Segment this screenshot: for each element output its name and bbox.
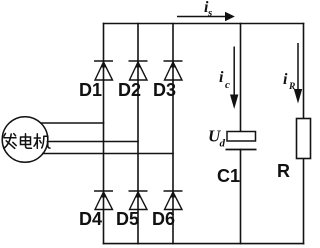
svg-text:R: R bbox=[277, 161, 290, 181]
arrow i_s on top bus bbox=[177, 12, 235, 21]
svg-text:D5: D5 bbox=[116, 209, 139, 229]
diode D6 bbox=[164, 191, 183, 210]
svg-text:D3: D3 bbox=[153, 80, 176, 100]
diode D2 bbox=[129, 61, 148, 80]
wire capacitor branch upper bbox=[240, 24, 242, 132]
wire column phase C (D3/D6 leg) bbox=[172, 24, 174, 244]
wire capacitor branch lower bbox=[240, 150, 242, 244]
svg-text:D2: D2 bbox=[118, 80, 141, 100]
generator circle 发电机 bbox=[2, 117, 48, 163]
capacitor C1 bottom plate bbox=[226, 149, 257, 151]
svg-text:i: i bbox=[219, 69, 224, 86]
svg-text:d: d bbox=[220, 138, 226, 150]
generator label 发电机 (drawn strokes) bbox=[4, 133, 50, 148]
wire generator phase line 2 bbox=[48, 141, 139, 143]
svg-text:s: s bbox=[207, 7, 212, 19]
capacitor C1 top plate bbox=[227, 132, 256, 142]
wire column phase A (D1/D4 leg) bbox=[103, 24, 105, 244]
diode D5 bbox=[129, 191, 148, 210]
char 机 bbox=[34, 134, 50, 149]
wire resistor branch upper bbox=[303, 24, 305, 119]
wire column phase B (D2/D5 leg) bbox=[137, 24, 139, 244]
svg-text:D1: D1 bbox=[79, 80, 102, 100]
diode D4 bbox=[94, 191, 113, 210]
diode D1 bbox=[94, 61, 113, 80]
svg-text:R: R bbox=[288, 82, 295, 92]
resistor R box bbox=[297, 119, 311, 159]
arrow i_c (capacitor current) bbox=[230, 47, 238, 110]
char 发 bbox=[4, 133, 16, 148]
wire bottom bus bbox=[104, 243, 304, 245]
char 电 bbox=[21, 134, 32, 149]
arrow i_R (load current) bbox=[294, 43, 302, 104]
wire resistor branch lower bbox=[303, 159, 305, 244]
svg-text:i: i bbox=[283, 71, 288, 88]
wire generator phase line 1 bbox=[41, 122, 104, 124]
svg-text:c: c bbox=[225, 79, 230, 91]
svg-text:D6: D6 bbox=[152, 209, 175, 229]
diode D3 bbox=[164, 61, 183, 80]
svg-text:D4: D4 bbox=[79, 209, 102, 229]
wire generator phase line 3 bbox=[43, 153, 173, 155]
wire top bus bbox=[104, 23, 304, 25]
svg-text:C1: C1 bbox=[217, 166, 240, 186]
